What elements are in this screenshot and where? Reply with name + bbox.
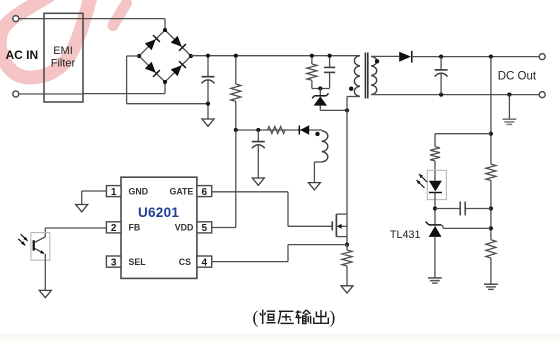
svg-text:SEL: SEL — [129, 257, 147, 267]
svg-text:CS: CS — [179, 257, 191, 267]
svg-text:TL431: TL431 — [390, 229, 421, 241]
svg-text:): ) — [330, 307, 336, 327]
svg-text:GATE: GATE — [170, 186, 194, 196]
svg-text:EMI: EMI — [53, 45, 73, 57]
svg-text:4: 4 — [202, 257, 208, 268]
svg-text:1: 1 — [111, 187, 117, 198]
svg-text:VDD: VDD — [175, 223, 194, 233]
svg-text:Filter: Filter — [51, 57, 76, 69]
svg-text:GND: GND — [129, 186, 149, 196]
svg-text:6: 6 — [202, 187, 208, 198]
svg-text:DC Out: DC Out — [498, 70, 537, 82]
svg-text:5: 5 — [202, 223, 208, 234]
svg-text:(: ( — [253, 307, 259, 327]
svg-text:FB: FB — [129, 223, 141, 233]
svg-text:AC IN: AC IN — [6, 48, 39, 62]
svg-text:3: 3 — [111, 257, 117, 268]
svg-text:2: 2 — [111, 223, 117, 234]
svg-text:U6201: U6201 — [138, 205, 179, 220]
